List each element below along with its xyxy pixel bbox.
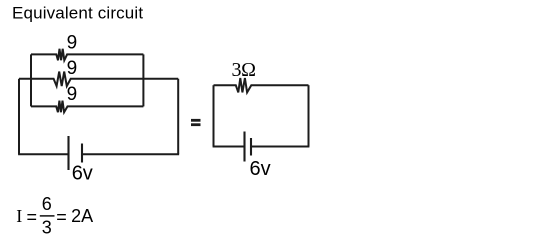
svg-text:9: 9 [67,32,78,53]
wire: left outer vertical down to battery [18,79,20,154]
svg-text:9: 9 [67,58,78,79]
wire: right inner vertical joining R1 and R3 [142,54,144,106]
svg-text:6v: 6v [250,158,271,180]
label 9 (R3) [67,84,78,105]
label 6v (B2) [250,158,271,180]
wire: right circuit bottom right segment [251,146,309,148]
label 6v (B1) [72,163,93,185]
wire: right circuit left vertical [213,85,215,146]
wire: bottom left segment to battery [18,153,68,155]
svg-text:2A: 2A [71,206,93,226]
battery B2 (6v) long plate [243,132,245,162]
battery B1 (6v) short plate [81,144,83,163]
label 9 (R1) [67,32,78,53]
resistor R2 (middle 9-ohm branch) with wire [19,72,178,87]
wire: right circuit bottom left segment [213,146,245,148]
svg-text:I: I [16,206,22,226]
wire: right outer vertical down to battery [177,79,179,154]
wire: bottom right segment from battery [82,153,179,155]
svg-text:=: = [27,207,38,227]
svg-text:9: 9 [67,84,78,105]
resistor R3 (bottom 9-ohm branch) with wire [31,101,143,113]
svg-text:3: 3 [42,218,52,238]
equation I = 6/3 = 2A [16,194,93,238]
title: Equivalent circuit [12,4,143,23]
wire: left inner vertical joining R1 and R3 [30,54,32,106]
svg-text:6v: 6v [72,163,93,185]
label 9 (R2) [67,58,78,79]
label 3-ohm (R4) [232,59,256,81]
battery B1 (6v) long plate [67,136,69,170]
svg-text:6: 6 [42,194,52,214]
svg-text:3Ω: 3Ω [232,59,256,81]
equals sign between circuits [191,119,201,126]
svg-text:=: = [56,207,67,227]
resistor R1 (top 9-ohm branch) with wire [31,49,143,61]
svg-text:Equivalent circuit: Equivalent circuit [12,4,143,23]
wire: right circuit right vertical [308,85,310,146]
resistor R4 (3-ohm) with top wire of right circuit [214,78,309,92]
battery B2 (6v) short plate [250,138,252,156]
